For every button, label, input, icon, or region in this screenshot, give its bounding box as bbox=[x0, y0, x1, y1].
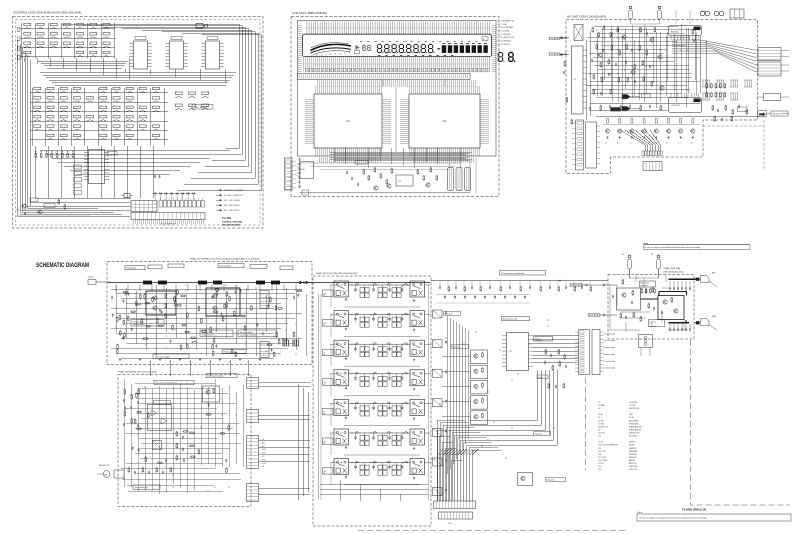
thermistor label bbox=[534, 432, 551, 436]
svg-text:Relay drive: Relay drive bbox=[127, 267, 136, 270]
annunciator row top bbox=[360, 40, 477, 42]
connector CN71 vertical bbox=[579, 330, 590, 375]
svg-text:S25-S40 : FUNCTION: S25-S40 : FUNCTION bbox=[224, 195, 243, 197]
svg-text:S48 : 256-2560-05: S48 : 256-2560-05 bbox=[224, 205, 240, 207]
label TX high frequency amplification bbox=[500, 271, 546, 276]
wires final to avr links bbox=[150, 360, 248, 376]
avr components middle bbox=[176, 431, 178, 437]
signal labels right of lcd bbox=[497, 20, 500, 22]
pa fuse 1 bbox=[628, 259, 632, 269]
meter scale arcs bbox=[311, 44, 352, 50]
svg-text:— 13.8V: — 13.8V bbox=[260, 463, 267, 465]
svg-text:BAR/M: BAR/M bbox=[629, 459, 635, 462]
cn stubs right edge bbox=[781, 51, 789, 114]
svg-text:26 GND(2): 26 GND(2) bbox=[501, 44, 511, 46]
relay RL31 bbox=[334, 340, 349, 356]
decoder side components bbox=[545, 349, 547, 355]
svg-text:FINAL UNIT (AVR) (X43-3010-00): FINAL UNIT (AVR) (X43-3010-00) (A/3) bbox=[118, 371, 157, 374]
connector CN201 bbox=[285, 158, 293, 190]
transistors af middle bbox=[622, 35, 626, 39]
label reactor current prevention bbox=[154, 381, 194, 385]
svg-text:CN-3: CN-3 bbox=[448, 523, 452, 525]
matrix left edge stubs bbox=[17, 28, 20, 32]
pa out connector 2 bbox=[696, 321, 700, 324]
wire qfp link bbox=[395, 87, 397, 152]
svg-text:C21: C21 bbox=[598, 469, 601, 471]
control unit dashed border bbox=[13, 17, 264, 229]
bottom connector strip 1 bbox=[434, 501, 476, 509]
svg-text:— TMP: — TMP bbox=[260, 453, 265, 455]
filter row 14MHz band label bbox=[323, 379, 334, 386]
svg-text:C7 MIX: C7 MIX bbox=[598, 423, 605, 425]
switch label box bbox=[537, 375, 548, 379]
filter row 28MHz band label bbox=[323, 438, 334, 445]
svg-text:C12 B: C12 B bbox=[598, 442, 604, 444]
bus wires right side bbox=[62, 24, 261, 190]
wires lcd bottom verticals bbox=[334, 148, 461, 168]
relay RL52 bbox=[410, 399, 425, 415]
pa wires bbox=[610, 278, 688, 332]
page divider dashed long bbox=[585, 378, 587, 470]
relay RL61 bbox=[334, 429, 349, 445]
final gnd row bbox=[119, 358, 121, 361]
avr bottom row components bbox=[128, 467, 130, 473]
units row below digits bbox=[378, 55, 453, 57]
avr components left column bbox=[124, 389, 126, 395]
lcd module right edge ticks bbox=[492, 24, 497, 72]
svg-text:SCHEMATIC DIAGRAM: SCHEMATIC DIAGRAM bbox=[36, 262, 89, 269]
svg-text:RF-M: RF-M bbox=[629, 417, 634, 419]
final amp transistor pair 1 bbox=[146, 291, 176, 315]
svg-text:C3: C3 bbox=[598, 408, 600, 410]
filter row 28MHz LC network bbox=[349, 432, 411, 434]
filter bottom wires bbox=[320, 480, 428, 501]
svg-text:TX high frequency amplificatio: TX high frequency amplification bbox=[501, 272, 525, 275]
svg-text:15 +5V(B): 15 +5V(B) bbox=[501, 31, 510, 33]
avr right wires bbox=[259, 382, 311, 500]
svg-text:C10 PLL: C10 PLL bbox=[598, 433, 605, 435]
connector arrow J11 bbox=[560, 54, 570, 56]
lcd module left edge ticks bbox=[298, 24, 303, 72]
svg-text:C9: C9 bbox=[598, 429, 600, 431]
avr connector CN64 bbox=[247, 484, 259, 502]
svg-text:(X56-3540-00) (B/4): (X56-3540-00) (B/4) bbox=[222, 224, 240, 227]
svg-text:C20: C20 bbox=[598, 466, 601, 468]
lcd module outer frame bbox=[298, 21, 497, 157]
RF input connector bbox=[88, 280, 96, 285]
resistor tick groups right bbox=[702, 79, 710, 81]
op-amp U2 bbox=[170, 41, 184, 69]
avr junction dots bbox=[187, 383, 188, 384]
resistor array R1-R8 bbox=[35, 152, 37, 158]
pa thick routing bbox=[641, 292, 687, 323]
pa transformer bottom bbox=[639, 335, 653, 348]
svg-text:TS-940S (FINAL) 3K: TS-940S (FINAL) 3K bbox=[682, 508, 706, 512]
pa center block bbox=[658, 296, 684, 320]
filter row 3.5MHz LC network bbox=[349, 314, 411, 316]
svg-text:AVR-PANEL: AVR-PANEL bbox=[629, 419, 639, 422]
filter row 50MHz wires bbox=[330, 462, 334, 464]
svg-text:C16: C16 bbox=[598, 454, 601, 456]
lcd comb cells row bbox=[306, 69, 309, 72]
avr relay transistor box bbox=[203, 386, 220, 402]
svg-text:C11: C11 bbox=[598, 436, 601, 438]
diode array D столб bbox=[74, 165, 82, 169]
pa transistor block left bbox=[617, 288, 641, 310]
resistor banks parallel bbox=[282, 340, 284, 346]
bottom right components af bbox=[712, 105, 714, 111]
svg-text:FAN MOTOR: FAN MOTOR bbox=[99, 464, 110, 467]
svg-text:STANDARD: STANDARD bbox=[629, 422, 639, 425]
svg-text:C1: C1 bbox=[598, 402, 600, 404]
op-amp IC1 bbox=[314, 94, 382, 148]
avr connector CN62 bbox=[247, 410, 259, 423]
avr extra components bbox=[226, 467, 228, 473]
IC U12 rounded bbox=[669, 98, 702, 113]
lightning surge label bbox=[649, 320, 665, 327]
svg-text:C15 1 RX: C15 1 RX bbox=[598, 451, 607, 453]
lcd display frame bbox=[303, 34, 492, 56]
diode matrix block bbox=[131, 201, 157, 212]
label box af1 bbox=[611, 108, 621, 112]
bus under qfp bbox=[330, 152, 472, 161]
relay RL62 bbox=[410, 429, 425, 445]
label relay drive 1 bbox=[444, 312, 461, 316]
svg-text:uPC1228: uPC1228 bbox=[671, 105, 681, 107]
filter row 1.8MHz LC network bbox=[349, 284, 411, 286]
af junction dots bbox=[590, 86, 591, 87]
relay driver bottom bbox=[518, 473, 533, 486]
svg-text:C13 CLICK-DRIVER-PW: C13 CLICK-DRIVER-PW bbox=[598, 445, 618, 447]
svg-text:STANDARD/RX: STANDARD/RX bbox=[629, 425, 643, 428]
svg-text:Note :: Note : bbox=[638, 511, 644, 514]
af unit dashed border bbox=[566, 20, 758, 174]
svg-text:MODULE: MODULE bbox=[629, 457, 637, 459]
svg-text:Relay drive: Relay drive bbox=[547, 479, 556, 482]
filter row 3.5MHz band label bbox=[323, 320, 334, 327]
voltage equalization label bbox=[534, 337, 553, 342]
main digits bbox=[377, 44, 383, 53]
final top small boxes bbox=[148, 265, 162, 269]
svg-text:F2: F2 bbox=[651, 254, 653, 256]
wire fan to bottom connector bbox=[438, 449, 479, 501]
fuse F2 bbox=[658, 10, 662, 19]
avr wires bbox=[121, 379, 243, 494]
avr connector CN63 bbox=[247, 436, 259, 469]
connector arrow J10 bbox=[560, 37, 570, 39]
connector J2 strip bbox=[131, 213, 205, 220]
connector strip af bottom bbox=[642, 151, 644, 156]
svg-text:1 SEGMENT S1: 1 SEGMENT S1 bbox=[501, 21, 515, 23]
af long verticals bbox=[602, 28, 696, 108]
svg-text:AF UNIT (X59-1100-00) (A/3): AF UNIT (X59-1100-00) (A/3) bbox=[567, 15, 606, 19]
avr comparator block bbox=[148, 405, 172, 431]
label box lcd bbox=[355, 161, 368, 165]
wires af bottom fan bbox=[620, 130, 661, 151]
gate symbol G1 bbox=[622, 95, 630, 99]
svg-text:21 GND(S1): 21 GND(S1) bbox=[501, 34, 512, 36]
svg-text:STANDARD/W: STANDARD/W bbox=[629, 428, 641, 431]
lcd assy dashed border bbox=[291, 17, 499, 197]
svg-text:— SP: — SP bbox=[260, 466, 264, 468]
legend table bbox=[216, 189, 222, 191]
svg-text:C19 W: C19 W bbox=[598, 463, 604, 465]
svg-text:SP OUT: SP OUT bbox=[773, 114, 781, 116]
svg-text:Relay drive: Relay drive bbox=[445, 313, 453, 315]
svg-text:M: M bbox=[105, 473, 107, 477]
seg digit indicator 8 black bbox=[509, 53, 516, 62]
band data decoder IC bbox=[507, 333, 529, 371]
filter row 3.5MHz wires bbox=[330, 314, 334, 316]
capacitor column lcd bbox=[299, 158, 301, 162]
filter row 7MHz wires bbox=[330, 343, 334, 345]
pa out connector 1 bbox=[696, 278, 700, 281]
final label boxes bbox=[218, 264, 244, 268]
IC U10 tall bbox=[572, 46, 584, 114]
filter FL1 bbox=[302, 190, 309, 195]
main RF line bbox=[108, 282, 430, 284]
transformer T1 bbox=[700, 11, 705, 16]
switch matrix lower bbox=[34, 87, 41, 93]
svg-text:C8 ACLK TX: C8 ACLK TX bbox=[598, 425, 609, 428]
fuse F1 bbox=[629, 10, 633, 19]
resistor tick groups right2 bbox=[702, 92, 710, 94]
svg-text:Note: Note bbox=[644, 242, 649, 245]
transformer T2 bbox=[714, 11, 719, 16]
svg-text:CONTROL UNIT (B/4): CONTROL UNIT (B/4) bbox=[222, 221, 242, 224]
IC U11 rounded bbox=[669, 26, 702, 36]
resistor network mid right bbox=[706, 83, 708, 89]
svg-text:4.7: 4.7 bbox=[629, 143, 631, 145]
svg-text:RF IN: RF IN bbox=[89, 277, 95, 279]
pa extra components bbox=[620, 313, 622, 319]
af wires mesh bbox=[586, 24, 700, 102]
RF branch components row bbox=[439, 281, 441, 287]
connector CN72 vertical bbox=[592, 330, 600, 375]
wires switch matrix lower bbox=[22, 88, 168, 210]
svg-text:Final amplifier: Final amplifier bbox=[220, 265, 232, 268]
relay RL32 bbox=[410, 340, 425, 356]
IC3 box lcd bbox=[300, 162, 314, 179]
pa thick wire bottom bbox=[669, 322, 690, 324]
avr switch box bbox=[153, 441, 162, 450]
pa fuse 2 bbox=[657, 259, 661, 269]
electrolytic caps C201-C203 bbox=[448, 168, 454, 191]
svg-text:F1: F1 bbox=[622, 254, 624, 256]
gate symbol G2 bbox=[622, 107, 630, 111]
lcd pin comb bottom bbox=[303, 57, 491, 72]
svg-text:LAMP/W: LAMP/W bbox=[629, 447, 636, 450]
relay RL22 bbox=[410, 311, 425, 327]
svg-text:REM: REM bbox=[712, 316, 716, 318]
final unit final dashed border bbox=[107, 262, 312, 365]
connector pills CN1 CN2 bbox=[549, 37, 560, 40]
final unit pa dashed border bbox=[608, 275, 694, 340]
svg-text:IC1: IC1 bbox=[346, 120, 350, 123]
connector CN7 bbox=[764, 94, 781, 101]
svg-text:C18 U-MW: C18 U-MW bbox=[598, 460, 607, 462]
meter sensitivity label bbox=[640, 281, 656, 287]
lcd pin comb top bbox=[305, 22, 491, 35]
connector CN6 right bbox=[758, 62, 781, 76]
decoder fan wires bbox=[470, 336, 579, 446]
black segment blocks bbox=[442, 45, 446, 53]
final amp transistor pair 2 bbox=[206, 288, 240, 316]
svg-text:4.7: 4.7 bbox=[690, 143, 692, 145]
svg-text:compensation: compensation bbox=[202, 334, 214, 337]
filter row 28MHz wires bbox=[330, 432, 334, 434]
label relay drive bottom bbox=[546, 478, 566, 482]
svg-text:4.7: 4.7 bbox=[605, 143, 607, 145]
driver bus lines bbox=[437, 316, 470, 501]
op-amp U3 bbox=[206, 41, 220, 69]
svg-text:Band data decoder: Band data decoder bbox=[503, 318, 518, 321]
meter tick marks bbox=[312, 52, 350, 57]
pa fuse stubs bbox=[630, 269, 667, 282]
svg-text:C14: C14 bbox=[598, 448, 601, 450]
svg-text:2 COM: 2 COM bbox=[501, 24, 507, 26]
RF branch row2 bbox=[444, 295, 446, 299]
wires lcd bottom rails bbox=[300, 192, 470, 194]
svg-text:EXECUTIVE: EXECUTIVE bbox=[629, 408, 640, 410]
bus fan to right connectors bbox=[672, 40, 757, 72]
label surge absorption bbox=[133, 485, 160, 489]
relay coils column bbox=[433, 310, 443, 318]
svg-text:PLL-M/W: PLL-M/W bbox=[629, 436, 637, 438]
svg-text:S49 : 256-2710-05: S49 : 256-2710-05 bbox=[224, 210, 240, 212]
connector bottom tick comb bbox=[133, 220, 204, 225]
pa cap bank bottom bbox=[669, 324, 671, 328]
wires IC interconnect bbox=[24, 58, 236, 85]
svg-text:U-TYPE: U-TYPE bbox=[629, 405, 636, 407]
svg-text:FINAL UNIT (FILTER) (X45-3520-: FINAL UNIT (FILTER) (X45-3520-00) (B/3) bbox=[316, 272, 358, 275]
svg-text:LCD ASSY (B38-0708-05): LCD ASSY (B38-0708-05) bbox=[292, 11, 327, 15]
bottom connector strip 2 bbox=[439, 512, 473, 519]
transistor row Q10-Q17 bbox=[603, 124, 700, 126]
svg-text:S01-S24 : KEYBOARD: S01-S24 : KEYBOARD bbox=[224, 189, 244, 192]
bus wires bottom bbox=[40, 150, 230, 175]
svg-text:ANT/CLR: ANT/CLR bbox=[629, 462, 637, 465]
filter row 21MHz LC network bbox=[349, 402, 411, 404]
svg-text:(X45-3530-00) (C/3): (X45-3530-00) (C/3) bbox=[664, 271, 684, 273]
svg-text:AN7062: AN7062 bbox=[671, 31, 679, 34]
filter vertical bus bbox=[318, 294, 320, 500]
op-amp IC2 bbox=[409, 94, 480, 148]
af lower mesh bbox=[586, 36, 760, 120]
svg-text:CONTROL UNIT (X56-3540-00 ISS:: CONTROL UNIT (X56-3540-00 ISS:2560-020 2… bbox=[13, 11, 81, 15]
relay RL21 bbox=[334, 311, 349, 327]
bottom-left transistor cluster bbox=[22, 204, 26, 208]
final unit avr dashed border bbox=[118, 375, 251, 507]
filter row 1.8MHz wires bbox=[330, 284, 334, 286]
svg-text:22 GND(1-LCD): 22 GND(1-LCD) bbox=[501, 37, 515, 39]
svg-text:START/UP: START/UP bbox=[629, 465, 639, 468]
filter row 50MHz band label bbox=[323, 468, 334, 475]
lcd bottom components cluster bbox=[300, 162, 460, 164]
svg-text:C5: C5 bbox=[598, 417, 600, 419]
pa in connector 2 bbox=[588, 314, 600, 317]
svg-text:24 GND(S2): 24 GND(S2) bbox=[501, 41, 512, 43]
relay RL12 bbox=[410, 281, 425, 297]
af comp row mid bbox=[600, 105, 602, 111]
svg-text:FINAL UNIT (PA): FINAL UNIT (PA) bbox=[664, 267, 681, 270]
svg-text:4.7: 4.7 bbox=[617, 143, 619, 145]
wire drop comb to ICs bbox=[316, 80, 476, 87]
svg-text:IC2: IC2 bbox=[443, 120, 447, 123]
avr connector CN61 bbox=[247, 378, 259, 389]
svg-text:MODE: MODE bbox=[629, 445, 635, 447]
svg-text:4.7: 4.7 bbox=[678, 143, 680, 145]
svg-text:compensation: compensation bbox=[133, 323, 145, 326]
connector CN5 right bbox=[758, 48, 781, 61]
filter row 14MHz wires bbox=[330, 373, 334, 375]
label relay surge absorption bbox=[206, 374, 237, 378]
wires switch matrix upper bbox=[20, 23, 115, 59]
final component scatter bbox=[174, 296, 176, 302]
filter row 14MHz LC network bbox=[349, 373, 411, 375]
filter row 50MHz LC network bbox=[349, 462, 411, 464]
bus wires left side bbox=[18, 40, 131, 216]
svg-text:4.7: 4.7 bbox=[666, 143, 668, 145]
svg-text:CPU/CLR: CPU/CLR bbox=[629, 469, 638, 471]
relay RL1 bbox=[574, 25, 583, 41]
band data decoder label bbox=[502, 317, 530, 321]
filter row 21MHz wires bbox=[330, 402, 334, 404]
svg-text:CONTROL: CONTROL bbox=[629, 402, 638, 404]
svg-text:TL-502: TL-502 bbox=[222, 216, 231, 220]
af component field bbox=[592, 27, 594, 33]
svg-text:C2 MAX: C2 MAX bbox=[598, 404, 605, 407]
pa resistor row bbox=[641, 288, 643, 294]
svg-text:13 CONTRAST: 13 CONTRAST bbox=[501, 26, 515, 29]
relay RL41 bbox=[334, 370, 349, 386]
svg-text:START/LOW: START/LOW bbox=[629, 432, 640, 435]
svg-text:— SWR: — SWR bbox=[260, 449, 267, 451]
svg-text:— RL: — RL bbox=[260, 456, 264, 458]
lcd bus band bbox=[298, 74, 471, 80]
relay RL11 bbox=[334, 281, 349, 297]
relay RL72 bbox=[410, 459, 425, 475]
svg-text:DIRECT: DIRECT bbox=[629, 442, 637, 444]
svg-text:Surge absorption: Surge absorption bbox=[135, 486, 148, 489]
wire RF top to PA bbox=[431, 280, 608, 282]
relay RL51 bbox=[334, 399, 349, 415]
filter row 7MHz LC network bbox=[349, 343, 411, 345]
label relay drive 2 bbox=[452, 345, 469, 349]
pa in connector 1 bbox=[570, 284, 582, 287]
relay driver transistor groups bbox=[471, 350, 488, 364]
final junction dots bbox=[166, 324, 167, 325]
pa cap bank top bbox=[669, 281, 671, 287]
terminal block TB1 bbox=[730, 9, 744, 18]
diode row D10-D17 bbox=[153, 192, 158, 194]
wires af top entry bbox=[631, 10, 691, 30]
small digits 8.8 bbox=[363, 45, 367, 50]
IC U4 bbox=[89, 150, 105, 184]
svg-text:C6 FM: C6 FM bbox=[598, 420, 604, 422]
crystal X2 bbox=[124, 194, 130, 198]
IC X1 crystal bbox=[196, 24, 203, 29]
dashed wire af right bbox=[703, 120, 764, 170]
final right connectors bbox=[260, 291, 269, 309]
filter row 1.8MHz band label bbox=[323, 290, 334, 297]
decoder junction dots bbox=[512, 380, 513, 381]
svg-text:Circuits are subject to change: Circuits are subject to change without n… bbox=[639, 517, 707, 520]
connector J1 row bbox=[159, 201, 162, 208]
op-amp U1 bbox=[134, 41, 148, 69]
svg-text:FINAL UNIT (FINAL) (X45-3510-0: FINAL UNIT (FINAL) (X45-3510-00) (A/3) D… bbox=[190, 258, 260, 261]
filter row 21MHz band label bbox=[323, 408, 334, 415]
